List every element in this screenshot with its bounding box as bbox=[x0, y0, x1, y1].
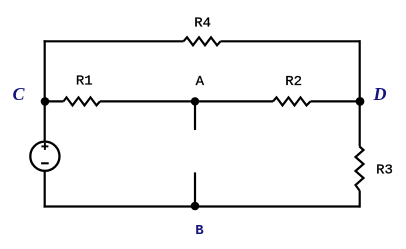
svg-text:C: C bbox=[12, 84, 25, 104]
wire left vertical lower bbox=[44, 171, 46, 208]
resistor R1 bbox=[64, 97, 101, 105]
svg-text:R1: R1 bbox=[76, 74, 93, 90]
svg-text:A: A bbox=[196, 74, 205, 90]
wire middle R1 to A bbox=[100, 100, 195, 102]
node B junction dot bbox=[191, 202, 200, 211]
node C junction dot bbox=[41, 97, 50, 106]
node A junction dot bbox=[191, 97, 199, 105]
wire right vertical lower bbox=[359, 191, 361, 208]
wire middle R2 to D bbox=[311, 100, 361, 102]
wire stub B bbox=[194, 172, 196, 206]
wire left vertical upper bbox=[44, 40, 46, 101]
wire left vertical to source bbox=[44, 101, 46, 142]
svg-text:B: B bbox=[195, 223, 204, 239]
svg-text:R4: R4 bbox=[194, 16, 211, 32]
svg-text:D: D bbox=[373, 84, 387, 104]
wire stub A bbox=[194, 101, 196, 130]
voltage source V1 bbox=[30, 142, 59, 171]
resistor R4 bbox=[184, 37, 221, 45]
node D junction dot bbox=[356, 97, 365, 106]
resistor R3 bbox=[356, 147, 364, 191]
svg-text:R2: R2 bbox=[285, 74, 302, 90]
wire top-right segment bbox=[221, 40, 361, 42]
wire right vertical upper bbox=[359, 40, 361, 101]
resistor R2 bbox=[273, 97, 311, 105]
wire bottom bbox=[44, 205, 361, 207]
wire top-left segment bbox=[44, 40, 184, 42]
wire middle A to R2 bbox=[195, 100, 273, 102]
wire middle C to R1 bbox=[45, 100, 64, 102]
svg-text:R3: R3 bbox=[376, 163, 393, 179]
wire right vertical mid bbox=[359, 101, 361, 146]
